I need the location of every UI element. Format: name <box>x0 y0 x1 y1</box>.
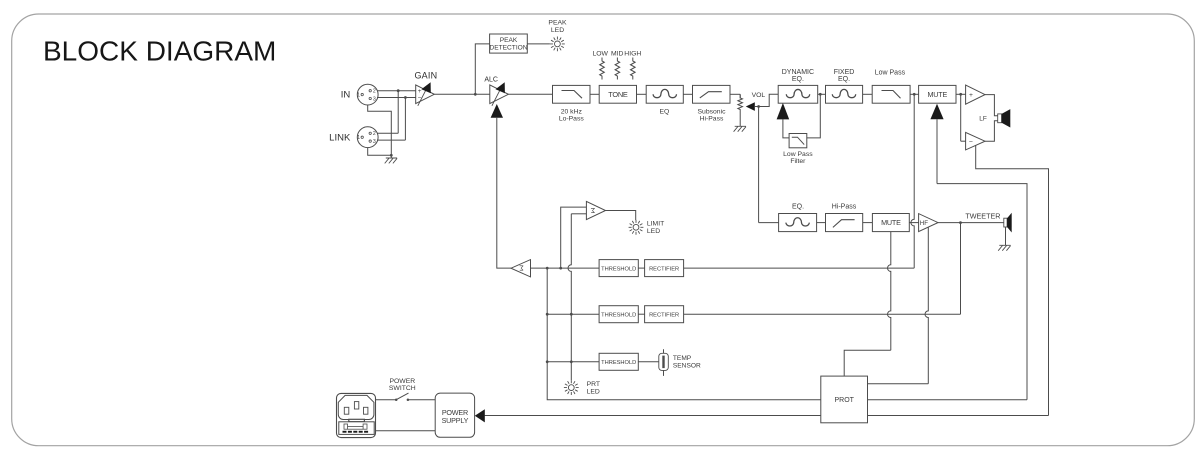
svg-text:Subsonic: Subsonic <box>698 108 727 115</box>
svg-text:3: 3 <box>373 96 376 102</box>
svg-text:THRESHOLD: THRESHOLD <box>601 266 636 272</box>
svg-text:THRESHOLD: THRESHOLD <box>601 312 636 318</box>
svg-text:TEMP: TEMP <box>673 355 692 362</box>
svg-text:PROT: PROT <box>834 397 854 404</box>
svg-text:VOL: VOL <box>752 92 766 99</box>
svg-text:ALC: ALC <box>484 76 498 83</box>
svg-text:LINK: LINK <box>329 132 351 143</box>
svg-text:POWER: POWER <box>389 378 415 385</box>
svg-text:EQ.: EQ. <box>792 76 804 83</box>
svg-text:LED: LED <box>551 27 564 34</box>
svg-text:SUPPLY: SUPPLY <box>442 416 469 425</box>
svg-text:LIMIT: LIMIT <box>647 221 664 228</box>
svg-text:LF: LF <box>979 115 987 122</box>
svg-text:MUTE: MUTE <box>881 218 901 227</box>
svg-text:EQ: EQ <box>659 108 669 115</box>
svg-text:PEAK: PEAK <box>548 20 567 27</box>
svg-text:HF: HF <box>920 220 928 227</box>
svg-text:LED: LED <box>647 228 660 235</box>
svg-text:MID: MID <box>611 51 624 58</box>
svg-text:EQ.: EQ. <box>792 203 804 210</box>
svg-text:TONE: TONE <box>608 90 628 99</box>
svg-text:EQ.: EQ. <box>838 76 850 83</box>
svg-text:2: 2 <box>373 131 376 137</box>
svg-text:Lo-Pass: Lo-Pass <box>559 115 585 122</box>
svg-text:1: 1 <box>357 135 360 141</box>
svg-text:GAIN: GAIN <box>414 70 437 80</box>
svg-text:Low Pass: Low Pass <box>783 151 813 158</box>
svg-text:RECTIFIER: RECTIFIER <box>649 266 679 272</box>
svg-text:HIGH: HIGH <box>624 51 641 58</box>
svg-text:Filter: Filter <box>790 158 806 165</box>
svg-text:SWITCH: SWITCH <box>389 385 416 392</box>
svg-text:2: 2 <box>373 89 376 95</box>
svg-text:PRT: PRT <box>587 381 600 388</box>
svg-text:IN: IN <box>341 90 351 101</box>
svg-text:TWEETER: TWEETER <box>965 212 1000 221</box>
svg-text:20 kHz: 20 kHz <box>561 108 583 115</box>
svg-text:SENSOR: SENSOR <box>673 363 701 370</box>
svg-text:+: + <box>969 92 973 99</box>
svg-text:3: 3 <box>373 139 376 145</box>
svg-text:Hi-Pass: Hi-Pass <box>832 203 857 210</box>
svg-text:FIXED: FIXED <box>834 69 855 76</box>
svg-text:1: 1 <box>357 93 360 99</box>
svg-text:BLOCK DIAGRAM: BLOCK DIAGRAM <box>43 36 276 67</box>
svg-text:−: − <box>969 139 973 146</box>
svg-text:RECTIFIER: RECTIFIER <box>649 312 679 318</box>
svg-text:Hi-Pass: Hi-Pass <box>700 115 724 122</box>
svg-text:DETECTION: DETECTION <box>489 45 527 52</box>
svg-text:MUTE: MUTE <box>928 90 948 99</box>
svg-text:Low Pass: Low Pass <box>875 69 906 76</box>
svg-text:DYNAMIC: DYNAMIC <box>782 69 814 76</box>
svg-text:Σ: Σ <box>590 206 595 213</box>
svg-text:LOW: LOW <box>592 51 608 58</box>
svg-text:PEAK: PEAK <box>500 37 518 44</box>
svg-text:Σ: Σ <box>519 264 524 271</box>
svg-text:LED: LED <box>587 388 600 395</box>
svg-text:THRESHOLD: THRESHOLD <box>601 360 636 366</box>
